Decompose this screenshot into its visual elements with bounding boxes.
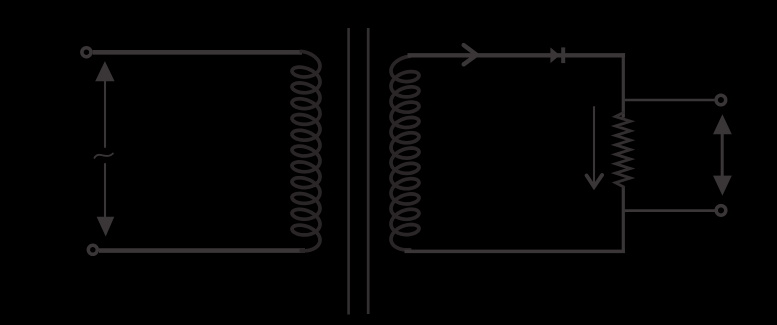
- current direction chevron arrow: [464, 45, 477, 64]
- terminal top-left: [82, 48, 91, 57]
- core line left: [347, 28, 350, 315]
- wire secondary bottom rail: [405, 250, 625, 254]
- output double arrowhead up: [713, 114, 732, 134]
- output double arrowhead down: [713, 176, 732, 196]
- load current arrowhead chevron: [587, 175, 603, 187]
- output stub wire top: [625, 99, 715, 101]
- diode D1 cathode bar: [561, 47, 565, 63]
- wire right vertical lower: [622, 186, 625, 253]
- wire primary top: [93, 50, 302, 55]
- wire secondary top: [408, 53, 626, 57]
- diode D1 triangle: [550, 47, 559, 63]
- AC arrowhead down: [97, 217, 115, 237]
- tilde AC symbol: [94, 154, 113, 158]
- resistor RL zigzag: [615, 111, 630, 189]
- output stub wire bottom: [625, 209, 715, 212]
- AC source arrow line upper: [104, 80, 106, 148]
- primary coil L1: [292, 51, 320, 250]
- terminal bottom-left: [88, 245, 97, 254]
- wire primary bottom: [99, 248, 305, 253]
- core line right: [367, 28, 370, 314]
- secondary coil L2: [391, 56, 419, 250]
- load current down arrow line: [593, 106, 595, 187]
- output voltage double arrow line: [721, 130, 724, 180]
- wire right vertical upper: [622, 53, 625, 117]
- AC source arrow line lower: [104, 163, 106, 218]
- AC arrowhead up: [95, 61, 114, 81]
- output terminal top: [716, 95, 726, 105]
- output terminal bottom: [716, 206, 726, 216]
